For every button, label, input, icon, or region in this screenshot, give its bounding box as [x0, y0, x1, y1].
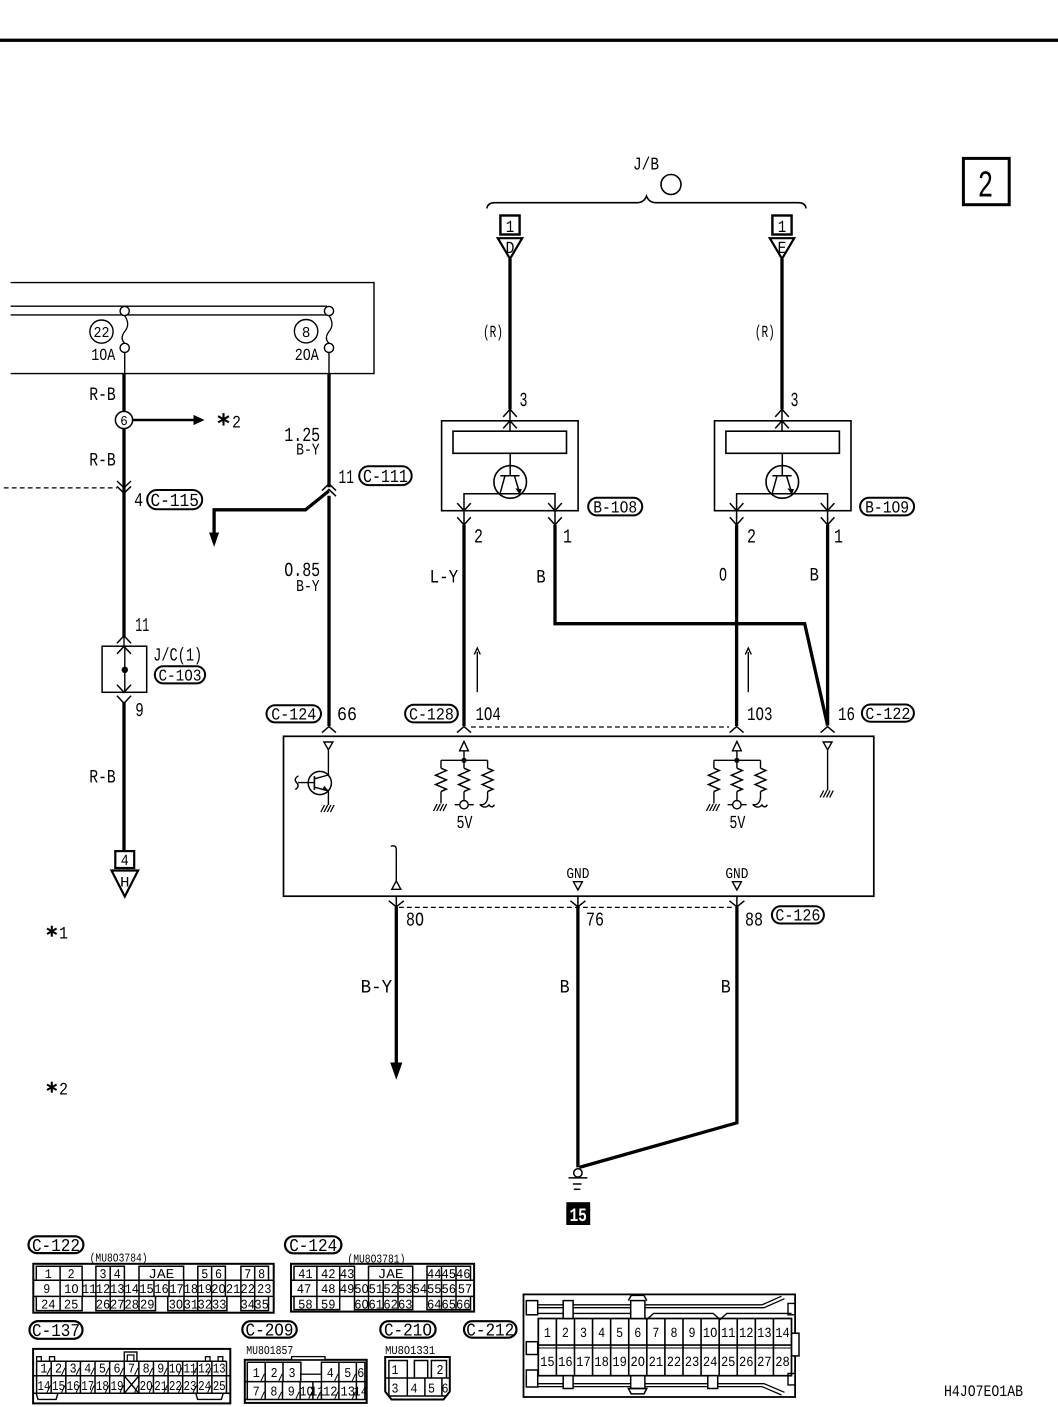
- 5V supply circle 104: [455, 801, 474, 809]
- connector label C-137 (pinout): [30, 1321, 83, 1342]
- pin 3 arrow into B-109: [775, 409, 789, 431]
- svg-text:2: 2: [68, 1267, 75, 1282]
- svg-text:11: 11: [135, 615, 149, 637]
- arrow to *2: [133, 415, 205, 425]
- svg-text:L-Y: L-Y: [430, 566, 459, 588]
- fuse 8 element: [324, 306, 333, 373]
- connector C-122 pinout table: [33, 1264, 273, 1313]
- svg-text:54: 54: [413, 1282, 428, 1297]
- svg-text:11: 11: [183, 1363, 196, 1378]
- svg-text:1: 1: [506, 219, 515, 238]
- resistor R-103a (to ground): [709, 768, 720, 803]
- svg-text:26: 26: [739, 1355, 754, 1371]
- svg-text:47: 47: [297, 1282, 312, 1297]
- wire B-Y from pin 80: [395, 907, 398, 1064]
- connector label C-122: [862, 705, 914, 725]
- svg-text:59: 59: [321, 1297, 336, 1312]
- svg-text:48: 48: [321, 1282, 336, 1297]
- svg-text:2: 2: [562, 1326, 569, 1342]
- junction block J/B label: [633, 156, 659, 176]
- svg-text:34: 34: [241, 1297, 256, 1312]
- connector label C-124 (pinout): [285, 1236, 341, 1257]
- svg-text:8: 8: [143, 1363, 150, 1378]
- component box B-109: [715, 421, 852, 511]
- svg-text:5: 5: [99, 1363, 106, 1378]
- ground (pin 16): [820, 791, 833, 798]
- svg-text:35: 35: [254, 1297, 269, 1312]
- svg-text:GND: GND: [566, 866, 589, 883]
- svg-text:C-212: C-212: [466, 1322, 514, 1342]
- svg-text:1: 1: [45, 1267, 52, 1282]
- svg-text:9: 9: [43, 1282, 50, 1297]
- wire (R) from J/B E to B-109 pin 3: [780, 259, 783, 410]
- svg-text:58: 58: [298, 1297, 313, 1312]
- svg-text:28: 28: [775, 1355, 790, 1371]
- pin number 4 (C-115): [134, 490, 143, 512]
- node junction pin 103: [714, 751, 761, 768]
- pin number 80: [406, 910, 424, 932]
- svg-text:C-111: C-111: [363, 467, 408, 488]
- inline connector arrows C-115: [117, 481, 131, 493]
- 5V label 104: [457, 813, 473, 834]
- wire R-B fuse 22 down to junction 6: [122, 374, 125, 412]
- svg-text:2: 2: [474, 527, 483, 550]
- internal wire B-109 pins: [737, 494, 828, 511]
- footnote marker *2 (bottom): [47, 1081, 68, 1101]
- svg-text:3: 3: [580, 1326, 587, 1342]
- svg-text:1O: 1O: [169, 1363, 182, 1378]
- GND triangle at x=577.9: [573, 882, 582, 890]
- wire B: B-108 pin1 to ECU pin 16 (routed): [555, 525, 828, 726]
- svg-text:(R): (R): [755, 324, 775, 343]
- svg-text:B: B: [536, 566, 545, 588]
- svg-text:13: 13: [757, 1326, 772, 1342]
- wire color label (R) right: [755, 324, 775, 343]
- svg-text:3: 3: [289, 1367, 296, 1382]
- connector C-124 pinout table: [291, 1264, 474, 1313]
- part number MU803781: [347, 1253, 405, 1267]
- pin entry arrow at x=464: [457, 727, 471, 733]
- svg-text:7: 7: [652, 1326, 659, 1342]
- svg-text:23: 23: [685, 1355, 700, 1371]
- svg-text:2OA: 2OA: [295, 347, 320, 366]
- connector label C-212 (pinout): [464, 1321, 517, 1341]
- svg-text:19: 19: [110, 1380, 123, 1395]
- svg-text:25: 25: [213, 1380, 226, 1395]
- svg-text:14: 14: [37, 1380, 50, 1395]
- pin number 76: [586, 910, 604, 932]
- svg-text:9: 9: [689, 1326, 696, 1342]
- bus bar lines: [11, 305, 327, 307]
- svg-text:4: 4: [114, 1267, 121, 1282]
- svg-text:5V: 5V: [729, 813, 745, 834]
- joint connector arrows top: [117, 636, 131, 654]
- pin number 103: [747, 704, 773, 726]
- svg-text:B-Y: B-Y: [361, 976, 393, 998]
- svg-text:31: 31: [184, 1297, 199, 1312]
- svg-text:45: 45: [441, 1267, 456, 1282]
- svg-text:26: 26: [96, 1297, 111, 1312]
- svg-text:5: 5: [616, 1326, 623, 1342]
- svg-text:2: 2: [747, 527, 756, 550]
- pin 3 arrow into B-108: [503, 409, 517, 431]
- ground (transistor emitter): [321, 805, 334, 812]
- pin exit at x=396.3 (ECU bottom): [389, 896, 404, 907]
- wire color label B (B-109): [810, 564, 819, 586]
- svg-text:1: 1: [40, 1363, 47, 1378]
- pin number 3 (B-108): [520, 390, 528, 413]
- ECU box (control unit): [284, 736, 874, 896]
- svg-text:8: 8: [670, 1326, 677, 1342]
- svg-text:12: 12: [96, 1282, 111, 1297]
- svg-text:C-115: C-115: [150, 491, 199, 512]
- svg-text:18: 18: [96, 1380, 109, 1395]
- svg-text:44: 44: [427, 1267, 442, 1282]
- svg-text:4: 4: [134, 490, 143, 512]
- svg-text:25: 25: [721, 1355, 736, 1371]
- resistor R-104c (internal): [482, 768, 493, 798]
- svg-text:21: 21: [226, 1282, 241, 1297]
- wire color label B-Y (2): [296, 577, 320, 596]
- svg-text:4: 4: [327, 1367, 334, 1382]
- svg-text:3: 3: [100, 1267, 107, 1282]
- svg-text:14: 14: [124, 1282, 139, 1297]
- svg-text:43: 43: [340, 1267, 355, 1282]
- svg-text:C-124: C-124: [271, 707, 316, 726]
- fuse 22 element: [120, 306, 129, 373]
- wire B-Y continues to ECU pin 66: [327, 496, 330, 726]
- svg-text:12: 12: [198, 1363, 211, 1378]
- wire color label R-B (2): [89, 450, 116, 472]
- resistor R-104a (to ground): [436, 768, 447, 803]
- svg-text:15: 15: [52, 1380, 65, 1395]
- svg-text:23: 23: [257, 1282, 272, 1297]
- svg-text:7: 7: [244, 1267, 251, 1282]
- svg-text:6: 6: [357, 1367, 364, 1382]
- svg-text:17: 17: [81, 1380, 94, 1395]
- svg-text:62: 62: [383, 1297, 398, 1312]
- ground reference number 15: [566, 1202, 590, 1227]
- svg-text:9: 9: [157, 1363, 164, 1378]
- dashed connector line C-126: [399, 906, 734, 908]
- svg-text:1: 1: [392, 1364, 399, 1379]
- ground (resistor 104a): [434, 804, 447, 811]
- destination triangle H: [112, 871, 139, 897]
- svg-text:2O: 2O: [631, 1355, 646, 1371]
- connector label C-209 (pinout): [242, 1321, 296, 1341]
- svg-text:E: E: [778, 240, 787, 259]
- signal direction arrow at pin 103: [745, 648, 751, 692]
- pin number 1 (B-109): [834, 527, 843, 550]
- connector label C-103: [155, 666, 205, 685]
- wire pin 16 to ground: [827, 750, 829, 791]
- wire color label 0: [719, 564, 727, 586]
- drawing number H4J07E01AB: [944, 1383, 1023, 1401]
- svg-text:23: 23: [183, 1380, 196, 1395]
- svg-text:C-126: C-126: [775, 908, 820, 927]
- svg-text:76: 76: [586, 910, 604, 932]
- footnote marker *2 (top): [218, 413, 241, 433]
- page number box 2: [963, 158, 1009, 208]
- pin 2 exit arrows B-108: [457, 503, 471, 525]
- svg-text:C-122: C-122: [865, 706, 910, 725]
- svg-text:C-122: C-122: [32, 1237, 80, 1257]
- junction box J/C(1): [102, 646, 147, 692]
- 5V supply circle 103: [728, 801, 747, 809]
- pin number 2 (B-109): [747, 527, 756, 550]
- svg-text:21: 21: [154, 1380, 167, 1395]
- svg-text:B-Y: B-Y: [296, 440, 320, 459]
- arrowhead wire 80: [390, 1063, 402, 1080]
- svg-text:5: 5: [428, 1383, 435, 1398]
- connector terminal 1 box (E): [772, 216, 791, 238]
- svg-text:6: 6: [215, 1267, 222, 1282]
- svg-text:1O3: 1O3: [747, 704, 773, 726]
- wire B from pin 76 to ground: [576, 907, 579, 1168]
- connector triangle E: [770, 238, 794, 259]
- GND label at x=736.9: [725, 866, 748, 883]
- svg-text:C-1O3: C-1O3: [158, 666, 201, 685]
- svg-text:2O: 2O: [140, 1380, 153, 1395]
- pin exit at x=577.9 (ECU bottom): [570, 896, 585, 907]
- svg-text:17: 17: [169, 1282, 184, 1297]
- resistor R-104b (to 5V): [459, 768, 470, 800]
- wire color label (R) left: [483, 324, 503, 343]
- svg-text:R-B: R-B: [89, 384, 116, 406]
- transistor Q1 (pin 66 driver): [295, 750, 331, 805]
- svg-text:C-137: C-137: [32, 1322, 80, 1342]
- svg-text:29: 29: [140, 1297, 155, 1312]
- svg-text:9: 9: [135, 700, 144, 722]
- svg-text:55: 55: [427, 1282, 442, 1297]
- component box B-108: [442, 421, 578, 511]
- wire B: B-109 pin1 to ECU pin 16: [826, 525, 829, 726]
- svg-text:15: 15: [569, 1205, 587, 1227]
- wire size label 0.85: [284, 560, 320, 583]
- part number MU801331: [385, 1344, 435, 1358]
- wire color label R-B (3): [89, 766, 116, 788]
- pin number 16: [838, 704, 855, 726]
- svg-text:61: 61: [369, 1297, 384, 1312]
- fuse number 8: [294, 320, 317, 343]
- earth ground symbol: [569, 1169, 588, 1190]
- svg-text:1: 1: [59, 925, 68, 945]
- J/B circle symbol: [661, 175, 681, 195]
- pin entry arrow at x=827.6: [821, 727, 835, 733]
- svg-text:2: 2: [978, 166, 994, 209]
- pin entry arrow at x=736.6: [730, 727, 744, 733]
- fuse number 22: [90, 320, 113, 343]
- svg-text:2O: 2O: [211, 1282, 226, 1297]
- part number MU803784: [90, 1252, 148, 1266]
- svg-text:11: 11: [339, 467, 354, 489]
- svg-text:5O: 5O: [354, 1282, 369, 1297]
- svg-text:15: 15: [540, 1355, 555, 1371]
- svg-text:19: 19: [612, 1355, 627, 1371]
- svg-text:22: 22: [667, 1355, 682, 1371]
- 5V label 103: [729, 813, 745, 834]
- connector label C-124: [267, 705, 322, 725]
- svg-text:3O: 3O: [169, 1297, 184, 1312]
- svg-text:C-2O9: C-2O9: [246, 1322, 294, 1342]
- wire (R) from J/B D to B-108 pin 3: [508, 259, 511, 410]
- svg-text:D: D: [506, 240, 515, 259]
- svg-text:1: 1: [544, 1326, 551, 1342]
- svg-text:52: 52: [383, 1282, 398, 1297]
- svg-text:6: 6: [634, 1326, 641, 1342]
- pin number 88: [745, 910, 763, 932]
- connector C-137 pinout drawing: [33, 1349, 230, 1404]
- svg-text:C-124: C-124: [289, 1237, 337, 1257]
- pin exit at x=736.9 (ECU bottom): [729, 896, 744, 907]
- input triangle pin 16: [823, 742, 832, 750]
- svg-text:66: 66: [337, 704, 357, 726]
- svg-text:H: H: [120, 876, 130, 892]
- svg-text:H4JO7EO1AB: H4JO7EO1AB: [944, 1383, 1023, 1401]
- svg-text:22: 22: [241, 1282, 256, 1297]
- node junction pin 104: [441, 751, 488, 768]
- connector label C-126: [772, 906, 824, 926]
- svg-text:R-B: R-B: [89, 766, 116, 788]
- svg-text:14: 14: [353, 1385, 368, 1400]
- svg-text:5V: 5V: [457, 813, 473, 834]
- pin number 11 (C-111): [339, 467, 354, 489]
- svg-text:(R): (R): [483, 324, 503, 343]
- wire color label B (B-108): [536, 566, 545, 588]
- svg-text:2: 2: [271, 1367, 278, 1382]
- svg-text:1O: 1O: [64, 1282, 79, 1297]
- input triangle pin 104: [460, 741, 469, 750]
- svg-text:GND: GND: [725, 866, 748, 883]
- svg-text:24: 24: [41, 1297, 56, 1312]
- svg-text:16: 16: [838, 704, 855, 726]
- svg-text:14: 14: [775, 1326, 790, 1342]
- svg-text:C-128: C-128: [409, 706, 454, 725]
- svg-text:8O: 8O: [406, 910, 424, 932]
- branch wire to *2 arrow: [209, 491, 329, 547]
- svg-text:2: 2: [59, 1081, 68, 1101]
- connector label C-122 (pinout): [29, 1236, 84, 1257]
- svg-text:1O4: 1O4: [475, 704, 501, 726]
- wire color label R-B (1): [89, 384, 116, 406]
- connector triangle D: [498, 238, 522, 259]
- svg-text:53: 53: [398, 1282, 413, 1297]
- wire B from pin 88 to ground: [579, 907, 737, 1168]
- svg-text:2: 2: [232, 413, 241, 433]
- signal direction arrow at pin 104: [474, 648, 480, 692]
- wire color label B-Y (pin 80): [361, 976, 393, 998]
- svg-text:B-1O9: B-1O9: [865, 499, 909, 518]
- svg-text:B: B: [721, 976, 731, 998]
- dashed connector line C-128/C-122: [471, 726, 729, 728]
- fuse rating 20A: [295, 347, 320, 366]
- wire size label 1.25: [284, 425, 320, 448]
- svg-text:6: 6: [442, 1383, 449, 1398]
- svg-text:22: 22: [94, 325, 110, 342]
- pin number 1 (B-108): [563, 527, 572, 550]
- svg-text:1OA: 1OA: [91, 347, 116, 366]
- continuation squiggle 103: [753, 798, 768, 808]
- svg-text:17: 17: [576, 1355, 591, 1371]
- connector C-210 pinout drawing: [385, 1357, 450, 1400]
- svg-text:42: 42: [321, 1267, 336, 1282]
- footnote marker *1: [47, 925, 68, 945]
- wire O: B-109 pin2 to ECU pin 103: [735, 525, 738, 726]
- svg-text:24: 24: [703, 1355, 718, 1371]
- connector C-212 pinout drawing: [524, 1294, 800, 1397]
- svg-text:49: 49: [340, 1282, 355, 1297]
- svg-text:64: 64: [427, 1297, 442, 1312]
- svg-text:3: 3: [70, 1363, 77, 1378]
- connector C-209 pinout drawing: [245, 1357, 368, 1403]
- svg-text:16: 16: [67, 1380, 80, 1395]
- svg-text:46: 46: [456, 1267, 471, 1282]
- wire L-Y: B-108 pin2 to ECU pin 104: [462, 525, 465, 726]
- label B-109: [860, 498, 914, 519]
- svg-text:32: 32: [197, 1297, 212, 1312]
- connector terminal 1 box (D): [500, 216, 519, 238]
- svg-text:J/B: J/B: [633, 156, 659, 176]
- svg-text:6: 6: [120, 415, 128, 430]
- svg-text:11: 11: [82, 1282, 97, 1297]
- svg-text:8: 8: [258, 1267, 265, 1282]
- svg-text:1: 1: [253, 1367, 260, 1382]
- svg-text:MU8O1857: MU8O1857: [246, 1344, 293, 1358]
- dashed line C-115: [4, 487, 117, 489]
- part number MU801857: [246, 1344, 293, 1358]
- svg-text:B: B: [560, 976, 570, 998]
- pin number 2 (B-108): [474, 527, 483, 550]
- pin 1 exit arrows B-109: [821, 503, 835, 525]
- wire B-Y fuse 8 down to C-111: [327, 374, 330, 488]
- svg-text:1: 1: [778, 219, 787, 238]
- svg-text:16: 16: [558, 1355, 573, 1371]
- svg-text:B: B: [810, 564, 819, 586]
- svg-text:88: 88: [745, 910, 763, 932]
- svg-text:3: 3: [520, 390, 528, 413]
- svg-text:28: 28: [124, 1297, 139, 1312]
- svg-text:13: 13: [110, 1282, 125, 1297]
- fuse rating 10A: [91, 347, 116, 366]
- pin number 9 (J/C): [135, 700, 144, 722]
- pin 80 internal squiggle: [391, 846, 397, 881]
- wire color label B (pin 76): [560, 976, 570, 998]
- wire R-B to H: [122, 702, 125, 851]
- svg-text:11: 11: [721, 1326, 736, 1342]
- joint connector arrows bottom: [117, 685, 131, 704]
- wire color label B-Y (1): [296, 440, 320, 459]
- pin number 3 (B-109): [791, 390, 799, 413]
- svg-text:41: 41: [298, 1267, 313, 1282]
- svg-text:5: 5: [201, 1267, 208, 1282]
- svg-text:18: 18: [184, 1282, 199, 1297]
- svg-text:C-21O: C-21O: [384, 1322, 432, 1342]
- svg-text:16: 16: [154, 1282, 169, 1297]
- svg-text:27: 27: [110, 1297, 125, 1312]
- svg-text:1O: 1O: [703, 1326, 718, 1342]
- svg-text:66: 66: [456, 1297, 471, 1312]
- svg-text:5: 5: [344, 1367, 351, 1382]
- svg-text:6O: 6O: [354, 1297, 369, 1312]
- svg-text:4: 4: [121, 852, 129, 870]
- top border rule: [0, 39, 1058, 42]
- svg-text:4: 4: [598, 1326, 605, 1342]
- connector label C-115: [147, 490, 202, 512]
- svg-text:4: 4: [411, 1383, 418, 1398]
- pin entry arrow at x=329: [322, 727, 336, 733]
- svg-text:12: 12: [739, 1326, 754, 1342]
- internal wire B-108 pins: [464, 494, 555, 511]
